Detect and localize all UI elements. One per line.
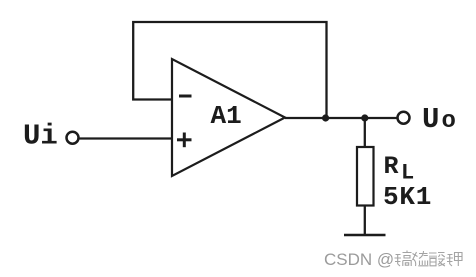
wire resistor RL bottom to ground	[364, 206, 366, 236]
hanzi gao3	[395, 251, 412, 267]
svg-text:R: R	[384, 152, 399, 181]
wire input Vi to non-inverting input	[79, 137, 172, 139]
hanzi jia3	[447, 253, 463, 267]
svg-text:Ui: Ui	[23, 120, 58, 153]
op-amp non-inverting input plus sign	[177, 133, 192, 148]
hanzi meng3	[413, 251, 429, 266]
watermark CSDN @...	[324, 250, 462, 269]
svg-text:U: U	[422, 103, 439, 136]
svg-text:CSDN @: CSDN @	[324, 250, 394, 269]
junction resistor tap on output node	[361, 114, 368, 121]
label RL	[384, 152, 415, 186]
node Vo output terminal circle	[398, 112, 410, 124]
op-amp U1 (A1) triangle body	[172, 59, 285, 176]
wire output node down to resistor RL top	[364, 118, 366, 147]
wire feedback loop from inverting input to output node	[133, 22, 326, 118]
svg-text:5K1: 5K1	[383, 182, 432, 212]
hanzi suan1	[429, 253, 445, 267]
ground	[344, 234, 386, 237]
junction feedback tap on output node	[322, 114, 329, 121]
resistor RL body	[357, 147, 374, 206]
wire output from op-amp apex to Vo terminal	[285, 117, 397, 119]
svg-text:A1: A1	[211, 101, 242, 131]
node Vi input terminal circle	[67, 132, 79, 144]
svg-text:o: o	[442, 108, 456, 135]
op-amp inverting input minus sign	[179, 95, 192, 98]
